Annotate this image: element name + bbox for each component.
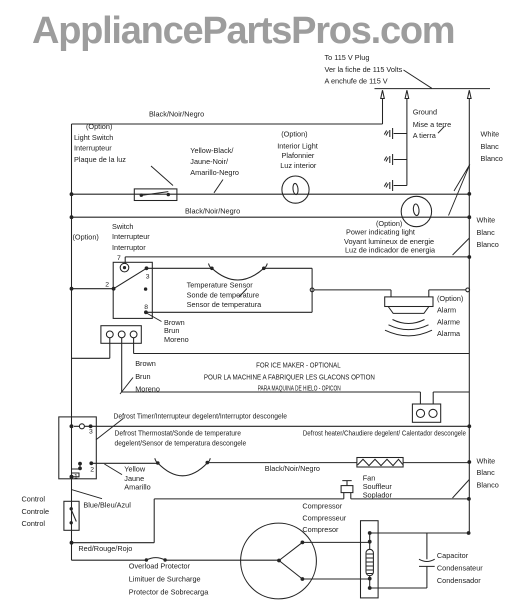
svg-text:FOR ICE MAKER - OPTIONAL: FOR ICE MAKER - OPTIONAL bbox=[256, 363, 341, 370]
arrow3 head bbox=[468, 90, 472, 98]
label defrost thermostat bbox=[115, 429, 247, 448]
wire arrow1 shaft to light circuit bbox=[382, 99, 384, 125]
svg-text:(Option): (Option) bbox=[437, 294, 463, 303]
pointer to plug bus bbox=[404, 70, 432, 88]
svg-text:Black/Noir/Negro: Black/Noir/Negro bbox=[185, 206, 240, 215]
wire alarm right to terminal bbox=[429, 290, 466, 297]
label light switch bbox=[74, 122, 126, 164]
wire compressor start to relay bbox=[302, 578, 369, 580]
label overload bbox=[129, 562, 209, 597]
timer pin labels bbox=[74, 428, 94, 480]
svg-text:Moreno: Moreno bbox=[135, 385, 160, 394]
pointer brown label 1 bbox=[147, 313, 162, 322]
svg-text:Amarillo-Negro: Amarillo-Negro bbox=[190, 168, 239, 177]
label control bbox=[22, 495, 50, 528]
svg-text:Compresor: Compresor bbox=[302, 525, 339, 534]
wire red row bbox=[72, 559, 147, 561]
svg-text:Interruptor: Interruptor bbox=[112, 243, 146, 252]
svg-text:Fan: Fan bbox=[363, 473, 376, 482]
svg-text:Blanc: Blanc bbox=[477, 228, 496, 237]
svg-text:PARA MAQUINA DE HIELO - OPICON: PARA MAQUINA DE HIELO - OPICON bbox=[258, 386, 341, 393]
svg-text:Jaune: Jaune bbox=[124, 474, 144, 483]
pointer blue label bbox=[72, 490, 103, 499]
timer motor staircase bbox=[72, 464, 80, 477]
svg-text:(Option): (Option) bbox=[86, 122, 112, 131]
wire brown pin1 to left border bbox=[72, 338, 110, 359]
timer pin contacts row bbox=[79, 424, 84, 429]
defrost heater resistor bbox=[357, 458, 403, 468]
label capacitor bbox=[437, 551, 483, 585]
wire brown pin3 to right border bbox=[134, 338, 470, 354]
junction dots right border bbox=[467, 192, 471, 196]
label brown 1 bbox=[164, 318, 189, 344]
temperature sensor arc bbox=[209, 264, 268, 281]
svg-text:(Option): (Option) bbox=[281, 130, 307, 139]
svg-text:Soplador: Soplador bbox=[363, 490, 393, 499]
pointer yellow label bbox=[104, 464, 122, 475]
wire pin3 to sensor bbox=[147, 267, 212, 269]
pin labels thermostat switch bbox=[105, 255, 150, 311]
pointer brown label 2 bbox=[120, 378, 133, 395]
svg-text:8: 8 bbox=[144, 304, 148, 311]
alarm buzzer body bbox=[385, 297, 433, 307]
label yellow bbox=[124, 464, 150, 491]
label white bottom bbox=[477, 457, 499, 490]
svg-text:1: 1 bbox=[74, 474, 78, 481]
svg-text:Limituer de Surcharge: Limituer de Surcharge bbox=[129, 575, 201, 584]
ground symbol 3 bbox=[384, 180, 407, 191]
sensor tap terminal circle bbox=[310, 288, 314, 292]
wire heater to right border bbox=[403, 462, 469, 464]
svg-text:White: White bbox=[481, 130, 500, 139]
svg-text:Control: Control bbox=[22, 495, 46, 504]
wire top border to light circuit bbox=[72, 123, 383, 125]
label interior light bbox=[277, 130, 318, 170]
svg-text:Black/Noir/Negro: Black/Noir/Negro bbox=[265, 464, 320, 473]
svg-text:Alarme: Alarme bbox=[437, 317, 460, 326]
svg-text:AppliancePartsPros.com: AppliancePartsPros.com bbox=[32, 10, 454, 52]
wire compressor run to relay bbox=[302, 541, 369, 543]
alarm sound waves bbox=[385, 320, 432, 336]
pointer light switch label bbox=[151, 166, 173, 186]
pointer defrost timer label bbox=[96, 418, 124, 440]
relay box bbox=[361, 521, 379, 598]
svg-text:Mise a terre: Mise a terre bbox=[413, 120, 452, 129]
wire sensor tap to alarm bbox=[314, 290, 391, 297]
svg-text:Controle: Controle bbox=[22, 507, 50, 516]
pointer ground label bbox=[438, 126, 445, 133]
svg-text:3: 3 bbox=[146, 274, 150, 281]
wire connector pin2 to right border bbox=[433, 392, 469, 404]
svg-text:White: White bbox=[477, 215, 496, 224]
switch lever 2-3 bbox=[114, 268, 147, 288]
junction dots left border bbox=[70, 192, 74, 196]
pointer white top labels bbox=[449, 165, 470, 216]
svg-text:Defrost heater/Chaudiere degel: Defrost heater/Chaudiere degelent/ Calen… bbox=[303, 429, 466, 438]
svg-text:Brun: Brun bbox=[135, 372, 150, 381]
svg-text:Switch: Switch bbox=[112, 222, 134, 231]
wire sensor loop right side bbox=[311, 268, 313, 312]
compressor dots bbox=[277, 559, 281, 563]
label white mid bbox=[477, 215, 499, 249]
label alarm bbox=[437, 294, 463, 338]
label temperature sensor bbox=[187, 281, 263, 309]
connector 3-pin box bbox=[101, 326, 141, 344]
svg-text:Plaque de la luz: Plaque de la luz bbox=[74, 155, 126, 164]
svg-text:Compresseur: Compresseur bbox=[302, 513, 346, 522]
svg-text:3: 3 bbox=[89, 428, 93, 435]
svg-text:Blanc: Blanc bbox=[481, 142, 500, 151]
svg-text:Capacitor: Capacitor bbox=[437, 551, 469, 560]
svg-text:Light Switch: Light Switch bbox=[74, 133, 113, 142]
overload dots bbox=[145, 558, 148, 561]
svg-text:Luz de indicador de energia: Luz de indicador de energia bbox=[345, 246, 436, 255]
relay dots bbox=[368, 531, 372, 535]
control switch box bbox=[64, 501, 79, 530]
ground symbol 2 bbox=[384, 154, 407, 165]
svg-text:Ver la fiche de 115 Volts: Ver la fiche de 115 Volts bbox=[325, 65, 403, 74]
pin 7 terminal circle bbox=[120, 263, 129, 272]
svg-text:degelent/Sensor de temperatura: degelent/Sensor de temperatura descongel… bbox=[115, 438, 247, 447]
compressor motor circle bbox=[241, 523, 317, 599]
wire pin2 to border bbox=[72, 288, 114, 290]
svg-text:Sensor de temperatura: Sensor de temperatura bbox=[187, 300, 263, 309]
svg-text:Red/Rouge/Rojo: Red/Rouge/Rojo bbox=[78, 544, 132, 553]
wire timer pin2 yellow bbox=[91, 462, 158, 464]
wire left border vertical bbox=[71, 124, 73, 560]
light switch contact dots bbox=[140, 194, 143, 197]
wire arrow2 shaft ground chain bbox=[406, 99, 408, 186]
wire arrow3 shaft right border (white) bbox=[468, 99, 470, 534]
label yellow-black bbox=[190, 146, 239, 177]
svg-text:Ground: Ground bbox=[413, 108, 437, 117]
wire switch pin7 row bbox=[125, 257, 469, 263]
label compressor bbox=[302, 502, 346, 534]
label white right top bbox=[481, 130, 503, 164]
svg-text:Overload Protector: Overload Protector bbox=[129, 562, 191, 571]
svg-text:Voyant lumineux de energie: Voyant lumineux de energie bbox=[344, 237, 434, 246]
svg-text:Brun: Brun bbox=[164, 326, 179, 335]
wire relay to right border top bbox=[370, 532, 469, 534]
thermostat switch box bbox=[113, 262, 152, 318]
wire fan branch down to red node bbox=[72, 499, 155, 543]
temperature sensor dots bbox=[210, 267, 214, 271]
label brown 2 bbox=[135, 359, 160, 394]
timer pin dots bbox=[70, 424, 74, 428]
svg-text:Yellow-Black/: Yellow-Black/ bbox=[190, 146, 234, 155]
label power indicating light bbox=[344, 219, 436, 255]
wire brown pin2 down bbox=[122, 338, 421, 404]
overload protector bbox=[146, 558, 165, 560]
svg-text:Control: Control bbox=[22, 519, 46, 528]
ice maker connector 2-pin bbox=[412, 404, 440, 422]
fan motor bbox=[341, 486, 353, 493]
svg-text:Alarma: Alarma bbox=[437, 329, 461, 338]
svg-text:Defrost Timer/Interrupteur deg: Defrost Timer/Interrupteur degelent/Inte… bbox=[114, 411, 288, 420]
svg-text:Sonde de temperature: Sonde de temperature bbox=[187, 290, 260, 299]
pointer white bottom label bbox=[453, 480, 470, 499]
defrost thermostat arc bbox=[155, 458, 211, 476]
svg-text:Brown: Brown bbox=[135, 359, 156, 368]
svg-text:Blanco: Blanco bbox=[477, 481, 499, 490]
svg-text:Interrupteur: Interrupteur bbox=[112, 232, 150, 241]
svg-text:POUR LA MACHINE A FABRIQUER LE: POUR LA MACHINE A FABRIQUER LES GLACONS … bbox=[204, 374, 375, 381]
svg-text:Luz interior: Luz interior bbox=[280, 161, 317, 170]
wire overload to compressor bbox=[165, 559, 279, 561]
wire main black row bbox=[72, 216, 470, 218]
wire relay to capacitor bottom bbox=[370, 587, 427, 589]
capacitor C1 bbox=[419, 533, 435, 588]
svg-text:Yellow: Yellow bbox=[124, 464, 146, 473]
pointer temp sensor label bbox=[239, 289, 247, 298]
wire fan row bbox=[154, 498, 469, 500]
svg-text:To 115 V Plug: To 115 V Plug bbox=[325, 53, 370, 62]
light switch SW1 bbox=[134, 189, 177, 201]
ground symbol 1 bbox=[384, 128, 407, 139]
svg-text:Alarm: Alarm bbox=[437, 306, 456, 315]
svg-text:Blanco: Blanco bbox=[477, 240, 499, 249]
svg-text:Power indicating light: Power indicating light bbox=[346, 228, 415, 237]
control switch dots bbox=[70, 507, 73, 510]
svg-text:Blanc: Blanc bbox=[477, 468, 496, 477]
label fan bbox=[363, 473, 393, 499]
wire sensor loop bottom to pin8 bbox=[146, 311, 312, 313]
svg-text:Jaune-Noir/: Jaune-Noir/ bbox=[190, 157, 229, 166]
svg-text:Amarillo: Amarillo bbox=[124, 483, 150, 492]
svg-text:Interior Light: Interior Light bbox=[277, 141, 318, 150]
label for ice maker bbox=[204, 363, 375, 393]
wire thermostat to heater bbox=[207, 462, 357, 464]
svg-text:Condensador: Condensador bbox=[437, 576, 481, 585]
svg-text:Blue/Bleu/Azul: Blue/Bleu/Azul bbox=[83, 500, 131, 509]
wire timer pin3 to right border bbox=[91, 425, 470, 427]
wire light circuit row bbox=[72, 193, 470, 195]
power indicating light lamp bbox=[401, 196, 431, 226]
control switch lever bbox=[71, 510, 76, 522]
plug bus wire bbox=[375, 88, 491, 90]
svg-text:Moreno: Moreno bbox=[164, 335, 189, 344]
svg-text:Defrost Thermostat/Sonde de te: Defrost Thermostat/Sonde de temperature bbox=[115, 429, 242, 438]
svg-text:A enchufe de 115 V: A enchufe de 115 V bbox=[325, 77, 388, 86]
label To 115 V Plug bbox=[325, 53, 403, 86]
svg-text:Interrupteur: Interrupteur bbox=[74, 143, 112, 152]
svg-text:Temperature Sensor: Temperature Sensor bbox=[187, 281, 254, 290]
interior light lamp bbox=[282, 176, 309, 203]
svg-text:Black/Noir/Negro: Black/Noir/Negro bbox=[149, 109, 204, 118]
svg-text:(Option): (Option) bbox=[376, 219, 402, 228]
svg-text:A tierra: A tierra bbox=[413, 131, 437, 140]
svg-text:Blanco: Blanco bbox=[481, 154, 503, 163]
label ground bbox=[413, 108, 452, 141]
svg-text:Condensateur: Condensateur bbox=[437, 564, 483, 573]
pointer yellow-black label bbox=[214, 180, 223, 193]
svg-text:(Option): (Option) bbox=[73, 232, 99, 241]
label switch thermostat bbox=[73, 222, 151, 252]
thermostat arc dots bbox=[156, 461, 160, 465]
wire sensor to loop right bbox=[264, 267, 312, 269]
svg-text:2: 2 bbox=[90, 466, 94, 473]
svg-text:Plafonnier: Plafonnier bbox=[281, 151, 314, 160]
defrost timer box bbox=[59, 417, 97, 479]
arrow2 head bbox=[405, 90, 409, 98]
open terminal circle at right border bbox=[466, 288, 470, 292]
svg-text:Compressor: Compressor bbox=[302, 502, 342, 511]
thermostat switch pins bbox=[145, 266, 149, 270]
PTC capsule bbox=[366, 549, 373, 575]
svg-text:White: White bbox=[477, 457, 496, 466]
svg-text:2: 2 bbox=[105, 282, 109, 289]
pointer white mid label bbox=[453, 238, 470, 255]
compressor windings bbox=[279, 542, 302, 579]
svg-text:Protector de Sobrecarga: Protector de Sobrecarga bbox=[129, 588, 209, 597]
arrow1 head bbox=[381, 90, 385, 98]
svg-text:7: 7 bbox=[117, 255, 121, 262]
